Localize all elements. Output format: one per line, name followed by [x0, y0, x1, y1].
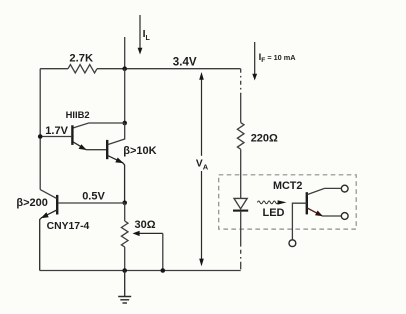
wire: right branch above 220 [240, 94, 242, 123]
junction: top rail node [122, 66, 127, 71]
phototransistor collector wire and terminal [307, 185, 348, 194]
svg-text:220Ω: 220Ω [251, 133, 278, 145]
wire: collector node vertical [124, 69, 126, 123]
resistor R1 2.7K [68, 65, 97, 73]
transistor Q1 emitter with arrow [73, 142, 87, 150]
phototransistor emitter with arrow (dark red) and terminal [307, 208, 348, 219]
transistor Q3 emitter with arrow [40, 210, 57, 271]
phototransistor Q4 bar [306, 192, 308, 214]
svg-text:CNY17-4: CNY17-4 [47, 221, 90, 232]
wire: top rail [40, 68, 241, 70]
voltage arrow VA (double headed) [199, 72, 204, 266]
svg-text:3.4V: 3.4V [173, 55, 197, 68]
junction: rail at ground [122, 268, 127, 273]
wire: right branch dash-dot upper [240, 69, 242, 94]
wire: bottom rail [40, 270, 241, 272]
svg-text:VA: VA [196, 159, 209, 172]
wire: dash-dot to bottom rail corner [240, 245, 242, 271]
junction: 1.7V node [38, 134, 43, 139]
svg-text:β>200: β>200 [16, 197, 48, 209]
transistor Q2 bar [106, 140, 108, 159]
svg-text:1.7V: 1.7V [45, 125, 68, 137]
optocoupler dashed box MCT2 [219, 175, 357, 229]
transistor Q1 (H11B2 input) collector wire [73, 123, 125, 128]
junction: collector node [122, 121, 127, 126]
svg-text:β>10K: β>10K [123, 145, 156, 157]
svg-text:MCT2: MCT2 [273, 180, 302, 192]
svg-text:IF = 10 mA: IF = 10 mA [259, 52, 297, 64]
transistor Q3 (CNY17-4) bar [56, 195, 58, 215]
wire: LED cathode down [240, 211, 242, 245]
wire: Q1 base from 1.7V node [40, 136, 71, 138]
wire: below 30ohm to rail [124, 247, 126, 271]
potentiometer wiper arrow on 30ohm [133, 231, 163, 271]
svg-text:LED: LED [263, 207, 285, 219]
transistor Q2 emitter with arrow [108, 156, 125, 203]
svg-text:30Ω: 30Ω [135, 219, 156, 231]
wire: 0.5V node to Q3 base [58, 202, 125, 204]
wire: top stub into node [124, 37, 126, 69]
wire: 220 to LED [240, 149, 242, 198]
phototransistor base wire and terminal [289, 203, 307, 246]
junction: 0.5V node [122, 201, 127, 206]
transistor Q1 bar [71, 125, 73, 145]
svg-text:IL: IL [143, 28, 151, 42]
svg-text:HIIB2: HIIB2 [66, 109, 90, 120]
diode LED [233, 198, 248, 210]
svg-text:0.5V: 0.5V [82, 190, 105, 202]
resistor R2 30ohm [121, 221, 128, 247]
svg-text:2.7K: 2.7K [69, 52, 93, 64]
ground [118, 271, 131, 304]
junction: rail at wiper [161, 268, 166, 273]
resistor R3 220ohm [237, 123, 244, 150]
wire: left vertical rail [39, 69, 41, 190]
current arrow IF [252, 42, 257, 81]
light arrow to phototransistor [257, 200, 286, 204]
transistor Q2 collector wire [108, 123, 125, 145]
wire: emitter node below 0.5V [124, 203, 126, 221]
current arrow IL [138, 15, 143, 55]
transistor Q3 collector wire [40, 190, 57, 199]
wire: Q1 emitter to Q2 base [86, 149, 106, 151]
